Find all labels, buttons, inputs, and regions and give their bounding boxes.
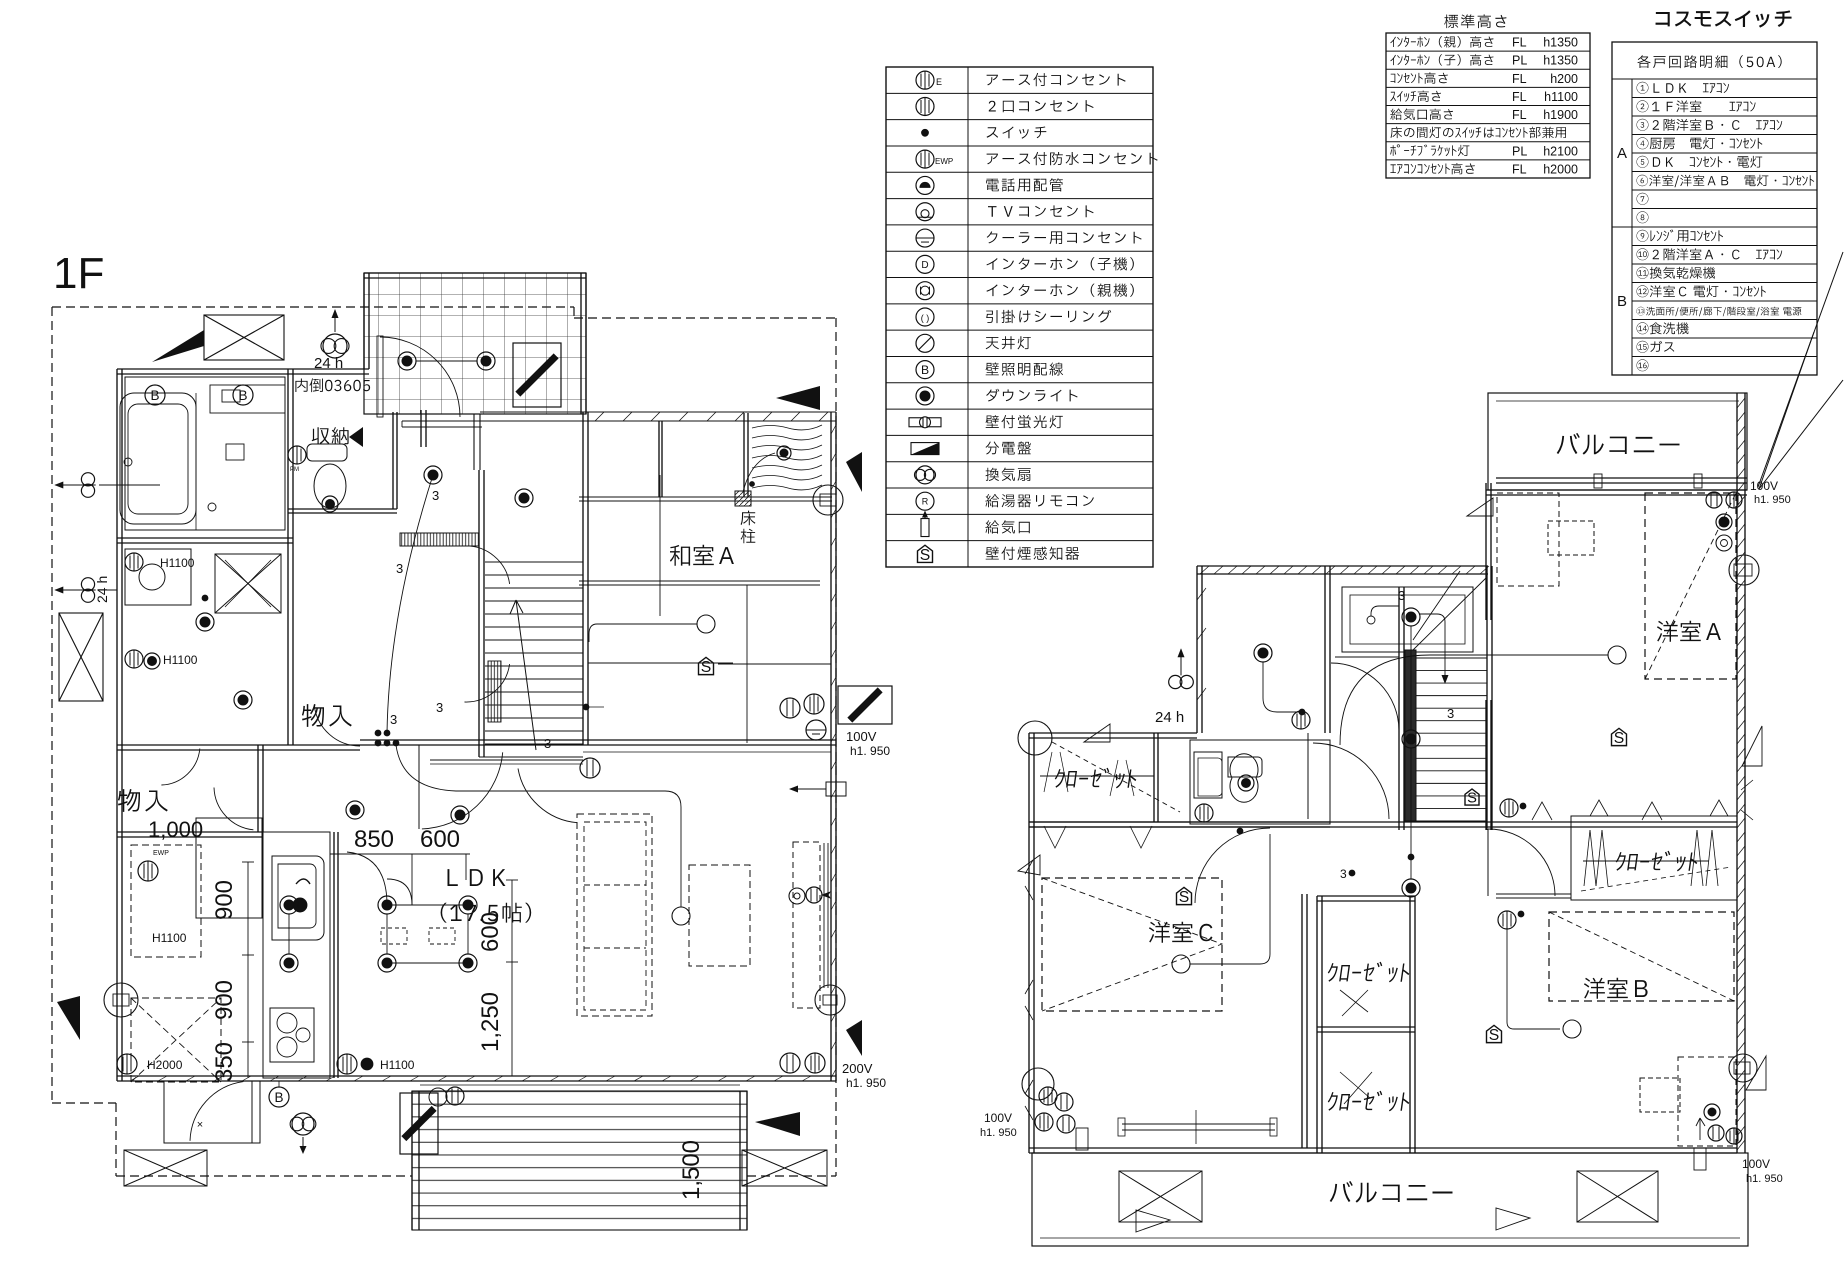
bath washing area fixtures bbox=[226, 444, 244, 460]
2F closet TL hatch lines bbox=[1044, 752, 1134, 796]
svg-text:3: 3 bbox=[436, 700, 443, 715]
black triangle washitsu north bbox=[776, 386, 820, 410]
genkan shoe band hatch bbox=[400, 533, 479, 546]
label クローゼット BR bbox=[1614, 851, 1699, 872]
title コスモスイッチ bbox=[1656, 11, 1791, 27]
svg-text:A: A bbox=[1617, 145, 1627, 162]
air inlet right wall bbox=[826, 782, 846, 796]
label 床柱 vertical bbox=[741, 511, 756, 526]
svg-text:h1. 950: h1. 950 bbox=[980, 1127, 1017, 1139]
bath vent crossed box above bbox=[204, 315, 284, 360]
wc right wall bbox=[392, 412, 394, 509]
svg-text:H2000: H2000 bbox=[147, 1058, 183, 1072]
washitsu ceiling circle + wire bbox=[697, 615, 715, 633]
2F top-left big circle at closet corner bbox=[1018, 721, 1052, 755]
washitsu west wall bbox=[582, 412, 584, 745]
svg-text:24 h: 24 h bbox=[1155, 709, 1184, 726]
labels H2000 H1100 bottom bbox=[117, 1054, 137, 1074]
bathroom/washroom divider wall bbox=[117, 537, 293, 539]
stair arrow bbox=[510, 600, 536, 750]
bath block right wall bbox=[287, 369, 289, 745]
label クローゼット TL bbox=[1053, 768, 1138, 789]
black triangle bottom right bbox=[755, 1112, 800, 1136]
svg-text:PL: PL bbox=[1512, 144, 1527, 158]
legend sym switch bbox=[922, 129, 929, 136]
black triangle right mid bbox=[846, 1020, 862, 1056]
legend sym distribution board bbox=[911, 443, 939, 455]
svg-text:h1. 950: h1. 950 bbox=[850, 744, 890, 758]
stair bottom door arc bbox=[518, 769, 577, 823]
heights row ﾎﾟｰﾁﾌﾞﾗｹｯﾄ灯 bbox=[1390, 144, 1469, 156]
svg-text:FL: FL bbox=[1512, 72, 1527, 86]
bathroom outer rect bbox=[125, 377, 285, 530]
heights row ｴｱｺﾝｺﾝｾﾝﾄ高さ bbox=[1390, 163, 1474, 174]
2F washroom walls bbox=[1324, 566, 1326, 733]
kitchen sink bbox=[272, 856, 324, 940]
svg-text:24 h: 24 h bbox=[314, 355, 343, 372]
svg-text:×: × bbox=[197, 1119, 203, 1131]
LDK dashed furniture: dining table bbox=[577, 814, 652, 1016]
2F closet mid hatches bbox=[1340, 990, 1372, 1104]
legend row text 給気口 bbox=[985, 520, 1029, 533]
entrance door arc bbox=[380, 337, 460, 417]
legend row text アース付コンセント bbox=[987, 73, 1126, 86]
legend sym EWP outlet bbox=[916, 150, 934, 168]
circuit row 8 bbox=[1637, 211, 1649, 223]
svg-text:850: 850 bbox=[354, 826, 394, 853]
svg-text:200V: 200V bbox=[842, 1061, 873, 1076]
circuit row 9 bbox=[1637, 229, 1724, 241]
door arc lower left 2 bbox=[161, 749, 199, 786]
circuit table header 各戸回路明細（50A） bbox=[1638, 55, 1782, 68]
legend sym ceiling light bbox=[916, 334, 934, 352]
arrow triangle to bath vent bbox=[152, 330, 204, 362]
2F closet TL right wall bbox=[1153, 733, 1155, 822]
hall door arc to LDK bbox=[422, 752, 503, 829]
heights row ｲﾝﾀｰﾎﾝ（子）高さ bbox=[1390, 54, 1493, 65]
svg-text:H1100: H1100 bbox=[160, 556, 195, 570]
2F bottom-right outlet cluster bbox=[1704, 1104, 1720, 1120]
dim line mid bbox=[511, 880, 513, 1076]
heights table frame bbox=[1386, 33, 1590, 178]
svg-text:PM: PM bbox=[290, 467, 299, 473]
2F right wall big circle vent lower bbox=[1729, 1054, 1757, 1082]
circuit row 3 bbox=[1637, 119, 1783, 131]
porch 24h vent symbol bbox=[321, 339, 336, 354]
svg-text:S: S bbox=[920, 547, 931, 564]
2F yoshitsuC smoke detector bbox=[1177, 887, 1192, 904]
2F washitsu? downlights stair bbox=[1402, 608, 1420, 626]
2F stair upper landing bbox=[1342, 587, 1473, 652]
label バルコニー top bbox=[1557, 433, 1680, 455]
leader lines from cosmo switch to 2F plan bbox=[1758, 252, 1843, 487]
2F yoshitsuA ceiling circle bbox=[1608, 646, 1626, 664]
2F outlet and wire to B room lights bbox=[1498, 911, 1516, 929]
2F closet TL shelf line bbox=[1040, 775, 1154, 777]
legend sym cooler outlet bbox=[916, 229, 934, 247]
legend row text 電話用配管 bbox=[986, 178, 1063, 191]
black triangle bottom left bbox=[57, 996, 80, 1040]
wood deck bbox=[412, 1091, 747, 1230]
svg-text:S: S bbox=[1179, 889, 1190, 906]
svg-text:3: 3 bbox=[396, 561, 403, 576]
2F outlet cluster top right bbox=[1706, 492, 1722, 508]
wc south wall bbox=[288, 508, 397, 510]
legend sym telephone bbox=[916, 176, 934, 194]
svg-text:600: 600 bbox=[477, 912, 504, 952]
switch cluster hall bbox=[375, 730, 381, 736]
svg-text:H1100: H1100 bbox=[163, 653, 198, 667]
legend row text 壁照明配線 bbox=[986, 362, 1064, 375]
fan symbol bottom bbox=[290, 1117, 304, 1131]
1F outer wall left bbox=[116, 369, 118, 1081]
2F bottom-left outlet cluster bbox=[1039, 1087, 1057, 1105]
1F top wall hatched band (washitsu north) bbox=[480, 411, 836, 413]
1F outer wall right bbox=[830, 412, 832, 1081]
legend row text 給湯器リモコン bbox=[985, 494, 1094, 507]
svg-text:h1900: h1900 bbox=[1543, 108, 1578, 122]
2F washroom downlight bbox=[1254, 644, 1272, 662]
2F washroom outlet right bbox=[1292, 711, 1310, 729]
washitsu big circle vent right bbox=[813, 485, 843, 515]
2F triangles (section marks) bbox=[1084, 724, 1110, 742]
heights row 給気口高さ bbox=[1390, 109, 1453, 121]
entrance porch tiled area bbox=[364, 273, 586, 414]
right wall bunden 100V bbox=[838, 686, 892, 724]
2F washroom switch dot bbox=[1299, 709, 1305, 715]
2F yoshitsuC dashed rect bbox=[1042, 878, 1222, 1011]
left wall vent 24h upper bbox=[81, 473, 94, 486]
legend sym vent fan bbox=[914, 469, 925, 480]
TV outlet hall bbox=[580, 758, 600, 778]
svg-text:PL: PL bbox=[1512, 54, 1527, 68]
svg-text:3: 3 bbox=[432, 488, 439, 503]
legend row text 引掛けシーリング bbox=[986, 310, 1111, 323]
circuit table frame bbox=[1612, 42, 1817, 375]
2F hall/stair walls bbox=[1398, 587, 1400, 830]
2F yoshitsuB dashed rect bbox=[1549, 912, 1734, 1001]
lower left room 物入 label bbox=[118, 789, 168, 812]
label 和室A bbox=[670, 545, 734, 566]
svg-text:FL: FL bbox=[1512, 162, 1527, 176]
washing machine crossed box bbox=[215, 554, 281, 613]
svg-text:900: 900 bbox=[211, 980, 238, 1020]
2F bottom wall above balcony bbox=[1029, 1147, 1737, 1149]
hall downlights bbox=[398, 352, 416, 370]
2F hall bottom wall bbox=[1029, 821, 1486, 823]
svg-text:E: E bbox=[936, 77, 942, 87]
2F left wall lower bbox=[1028, 822, 1030, 1153]
2F yoshitsuA bottom wall bbox=[1486, 821, 1737, 823]
label 洋室A bbox=[1657, 621, 1721, 642]
2F bottom-right dashed rects bbox=[1678, 1057, 1736, 1146]
2F window V marks right wall bbox=[1741, 780, 1753, 820]
kitchen counter bbox=[263, 832, 330, 1078]
svg-text:100V: 100V bbox=[846, 729, 877, 744]
svg-text:B: B bbox=[921, 363, 929, 377]
legend sym heater remote bbox=[916, 492, 934, 510]
legend sym earth outlet bbox=[916, 71, 934, 89]
legend sym wall light B bbox=[916, 361, 934, 379]
2F stairs steps bbox=[1416, 657, 1487, 659]
2F main right wall bbox=[1736, 393, 1738, 1153]
LDK dashed small boxes row bbox=[381, 928, 407, 944]
2F closet column walls bbox=[1301, 894, 1303, 1148]
legend sym downlight bbox=[916, 387, 934, 405]
svg-text:h1350: h1350 bbox=[1543, 36, 1578, 50]
legend row text アース付防水コンセント bbox=[987, 152, 1158, 165]
svg-text:h2000: h2000 bbox=[1543, 162, 1578, 176]
svg-text:h1. 950: h1. 950 bbox=[846, 1076, 886, 1090]
2F left block west wall bbox=[1196, 566, 1198, 733]
2F closet TL bottom V marks bbox=[1044, 826, 1152, 848]
washroom H1100 label bbox=[125, 553, 143, 571]
storage 物入 center label bbox=[302, 704, 352, 727]
washitsu downlight top right bbox=[777, 446, 791, 460]
2F wall below top balcony bbox=[1486, 489, 1747, 491]
circuit row 15 bbox=[1637, 341, 1675, 353]
svg-text:100V: 100V bbox=[984, 1111, 1012, 1125]
legend row text 壁付煙感知器 bbox=[986, 547, 1080, 560]
1F outer wall bottom bbox=[117, 1075, 836, 1077]
1F staircase bbox=[485, 561, 583, 563]
legend row text 壁付蛍光灯 bbox=[986, 415, 1063, 429]
circuit row 11 bbox=[1637, 267, 1716, 279]
washitsu bottom wall bbox=[360, 739, 836, 741]
2F right big circle vent bbox=[1729, 555, 1759, 585]
svg-text:H1100: H1100 bbox=[380, 1058, 415, 1072]
2F balcony crossed boxes bbox=[1119, 1171, 1202, 1222]
dim vertical line left bbox=[247, 862, 249, 1078]
lower left solid cabinet bbox=[196, 818, 262, 918]
black triangle right of washitsu top bbox=[846, 452, 862, 492]
legend row text ＴＶコンセント bbox=[988, 205, 1094, 217]
label LDK bbox=[448, 869, 506, 886]
left big circle bottom bbox=[104, 983, 138, 1017]
svg-text:h200: h200 bbox=[1550, 72, 1578, 86]
2F yoshitsuC ceiling circle bbox=[1172, 955, 1190, 973]
label 収納 bbox=[312, 427, 349, 444]
svg-text:EWP: EWP bbox=[153, 850, 169, 857]
heights row 床の間灯のｽｲｯﾁはｺﾝｾﾝﾄ部兼用 bbox=[1391, 127, 1567, 139]
heights row ｲﾝﾀｰﾎﾝ（親）高さ bbox=[1390, 36, 1493, 47]
bottom porch door arc bbox=[190, 1082, 243, 1141]
B circle bottom bbox=[269, 1087, 289, 1107]
wc door arc bbox=[314, 706, 360, 746]
LDK dashed furniture small bbox=[689, 865, 750, 966]
bottom crossed boxes bbox=[124, 1150, 207, 1186]
LDK dashed sideboard right bbox=[793, 842, 820, 1008]
legend sym wall fluorescent bbox=[909, 418, 923, 427]
washroom vanity bbox=[125, 549, 191, 605]
legend row text インターホン（子機） bbox=[987, 257, 1134, 270]
2F yoshitsuA smoke detector bbox=[1612, 728, 1627, 745]
LDK downlight grid bbox=[378, 896, 396, 914]
entrance hall step lines bbox=[402, 420, 482, 422]
wc downlight bbox=[322, 496, 338, 512]
2F vent 24h bbox=[1169, 675, 1182, 688]
washroom downlights bbox=[196, 613, 214, 631]
svg-text:D: D bbox=[921, 260, 928, 271]
2F yoshitsuB ceiling circle bbox=[1563, 1020, 1581, 1038]
1F outer wall top (bath block) bbox=[117, 368, 369, 370]
2F closet TL walls bbox=[1029, 732, 1197, 734]
wc EWP outlet bbox=[288, 446, 306, 464]
2F toilet room bbox=[1190, 740, 1330, 824]
legend sym air inlet bbox=[921, 519, 929, 537]
tokonoma wood grain bbox=[752, 425, 822, 430]
2F door arc toilet bbox=[1313, 743, 1389, 819]
hall door arcs double bbox=[465, 546, 510, 584]
heights row ｺﾝｾﾝﾄ高さ bbox=[1391, 72, 1448, 84]
deck dist board bbox=[400, 1093, 438, 1154]
2F switch dots bbox=[1349, 870, 1355, 876]
svg-text:B: B bbox=[238, 388, 247, 403]
svg-text:R: R bbox=[922, 497, 929, 507]
2F bottom-left big circle bbox=[1022, 1068, 1054, 1100]
svg-text:h1. 950: h1. 950 bbox=[1746, 1173, 1783, 1185]
svg-text:FL: FL bbox=[1512, 108, 1527, 122]
legend row text ダウンライト bbox=[986, 389, 1077, 402]
2F stair smoke detector bbox=[1465, 789, 1479, 805]
heights row ｽｲｯﾁ高さ bbox=[1390, 91, 1441, 102]
2F stair diagonals bbox=[1413, 571, 1487, 650]
hall wire curves bbox=[396, 745, 681, 907]
2F stair wire loop bbox=[1419, 614, 1445, 677]
svg-text:600: 600 bbox=[420, 826, 460, 853]
washitsu switch dot west bbox=[583, 704, 589, 710]
svg-text:3: 3 bbox=[544, 736, 551, 751]
svg-text:1,000: 1,000 bbox=[148, 817, 203, 842]
svg-text:h1. 950: h1. 950 bbox=[1754, 494, 1791, 506]
2F toilet EWP bbox=[1195, 804, 1213, 822]
label 洋室B bbox=[1584, 978, 1648, 999]
label クローゼット mid upper bbox=[1326, 962, 1411, 983]
right wall outlets lower bbox=[780, 1053, 800, 1073]
legend sym interphone parent bbox=[916, 282, 934, 300]
kitchen stove bbox=[270, 1008, 314, 1062]
svg-text:B: B bbox=[274, 1090, 283, 1105]
svg-text:3: 3 bbox=[1340, 867, 1347, 881]
legend row text スイッチ bbox=[987, 127, 1047, 139]
2F toilet downlight bbox=[1238, 775, 1254, 791]
legend sym 2-outlet bbox=[916, 97, 934, 115]
washroom outlet H1100 second bbox=[125, 650, 143, 668]
deck outlet circle bbox=[429, 1088, 447, 1106]
bottom porch walls bbox=[164, 1081, 260, 1143]
door arc lower left room bbox=[214, 788, 253, 830]
svg-text:1,250: 1,250 bbox=[477, 992, 504, 1052]
kitchen waist wall bbox=[333, 832, 335, 1078]
svg-text:900: 900 bbox=[211, 880, 238, 920]
legend row text インターホン（親機） bbox=[987, 284, 1134, 297]
washitsu NW closet divider bbox=[658, 421, 660, 497]
svg-text:S: S bbox=[1467, 791, 1477, 807]
circuit row 10 bbox=[1637, 248, 1783, 260]
svg-text:24 h: 24 h bbox=[94, 576, 110, 603]
circuit row 6 bbox=[1637, 175, 1815, 187]
svg-text:S: S bbox=[701, 659, 712, 676]
legend sym smoke detector bbox=[918, 545, 933, 562]
2F misc door arc washroom bbox=[1331, 663, 1399, 731]
circuit row 14 bbox=[1637, 322, 1689, 334]
2F yoshitsuB top-wall window marks bbox=[1590, 800, 1728, 816]
LDK tel outlet pair right wall bbox=[789, 888, 805, 904]
2F washroom west wall hatches bbox=[1197, 588, 1206, 700]
legend sym interphone child bbox=[916, 255, 934, 273]
svg-text:H1100: H1100 bbox=[152, 931, 187, 945]
circuit row 7 bbox=[1637, 193, 1649, 205]
label 洋室C bbox=[1149, 922, 1213, 943]
svg-text:FL: FL bbox=[1512, 90, 1527, 104]
lower left dashed tall rect bbox=[131, 845, 201, 957]
2F yoshitsuB closet top bbox=[1571, 816, 1737, 900]
svg-text:1,500: 1,500 bbox=[678, 1140, 705, 1200]
2F balcony inner dashed rects bbox=[1497, 493, 1559, 586]
svg-text:( ): ( ) bbox=[921, 313, 930, 323]
svg-text:1F: 1F bbox=[53, 249, 104, 298]
label 内倒03605 bbox=[295, 378, 370, 392]
wall divider lower-left room bbox=[257, 745, 259, 832]
washitsu smoke detector bbox=[699, 657, 714, 674]
svg-text:S: S bbox=[1614, 730, 1625, 747]
2F balcony top-right outer bbox=[1488, 393, 1747, 490]
circuit row 1 bbox=[1637, 82, 1730, 94]
legend row text 換気扇 bbox=[986, 468, 1031, 481]
dim line for 850/600 bbox=[330, 853, 470, 855]
washitsu sliding door tracks bbox=[579, 496, 832, 498]
legend sym TV outlet bbox=[916, 203, 934, 221]
svg-text:3: 3 bbox=[390, 712, 397, 727]
2F dashed ceiling line TL closet bbox=[1052, 742, 1180, 812]
wc toilet bbox=[307, 444, 347, 461]
LDK right wall big circle vent bbox=[815, 985, 845, 1015]
2F stair center rail dark bar bbox=[1405, 650, 1416, 821]
svg-text:B: B bbox=[1617, 293, 1627, 310]
bath wall light B circles bbox=[145, 385, 165, 405]
circuit row 2 bbox=[1637, 100, 1756, 112]
2F top wall of left block hatched bbox=[1197, 565, 1488, 567]
2F yoshitsuA west wall bbox=[1485, 483, 1487, 620]
2F yoshitsuA dashed ceiling rect bbox=[1645, 493, 1736, 679]
legend table frame bbox=[886, 67, 1153, 567]
svg-text:S: S bbox=[1489, 1027, 1500, 1044]
2F door arc hall to C bbox=[1195, 828, 1270, 903]
legend sym ceiling hook bbox=[916, 308, 934, 326]
kitchen faucet bbox=[296, 879, 310, 884]
lower left dashed crossed box bbox=[131, 998, 221, 1082]
entrance distribution board symbol bbox=[513, 343, 561, 407]
LDK wire from switch to lights bbox=[347, 852, 387, 905]
tokonoma post hatch bbox=[735, 491, 751, 506]
bath counter bbox=[210, 385, 285, 413]
legend row text 分電盤 bbox=[986, 441, 1031, 454]
label クローゼット mid lower bbox=[1326, 1091, 1411, 1112]
svg-text:h2100: h2100 bbox=[1543, 144, 1578, 158]
circuit row 16 bbox=[1637, 359, 1649, 371]
bathtub bbox=[120, 393, 196, 524]
label 17.5帖 bbox=[441, 903, 532, 923]
svg-text:h1350: h1350 bbox=[1543, 54, 1578, 68]
circuit row 13 bbox=[1636, 307, 1801, 317]
2F laundry pole left bbox=[1122, 1123, 1275, 1125]
label バルコニー bottom bbox=[1330, 1181, 1453, 1203]
washroom bottom wall bbox=[117, 744, 360, 746]
hall south boundary line bbox=[430, 759, 583, 761]
2F yoshitsuB door arc bbox=[1488, 829, 1555, 896]
bottom wall window band bbox=[420, 1084, 740, 1086]
2F balcony bottom bbox=[1032, 1153, 1748, 1246]
